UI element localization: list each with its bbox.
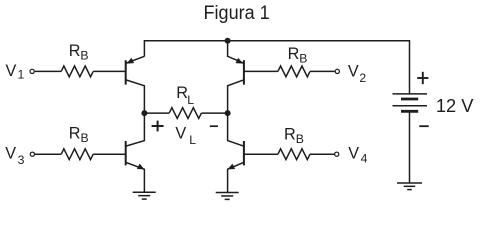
- svg-text:RL: RL: [176, 84, 194, 107]
- svg-text:RB: RB: [284, 125, 304, 146]
- svg-text:Figura 1: Figura 1: [204, 2, 270, 24]
- svg-text:RB: RB: [69, 42, 89, 63]
- svg-text:V1: V1: [6, 62, 25, 82]
- svg-text:RB: RB: [69, 125, 89, 146]
- svg-text:RB: RB: [288, 45, 308, 66]
- svg-text:V3: V3: [5, 144, 24, 167]
- svg-text:12 V: 12 V: [436, 95, 474, 116]
- svg-text:VL: VL: [175, 125, 196, 148]
- svg-text:V2: V2: [348, 63, 367, 85]
- svg-text:V4: V4: [348, 145, 367, 166]
